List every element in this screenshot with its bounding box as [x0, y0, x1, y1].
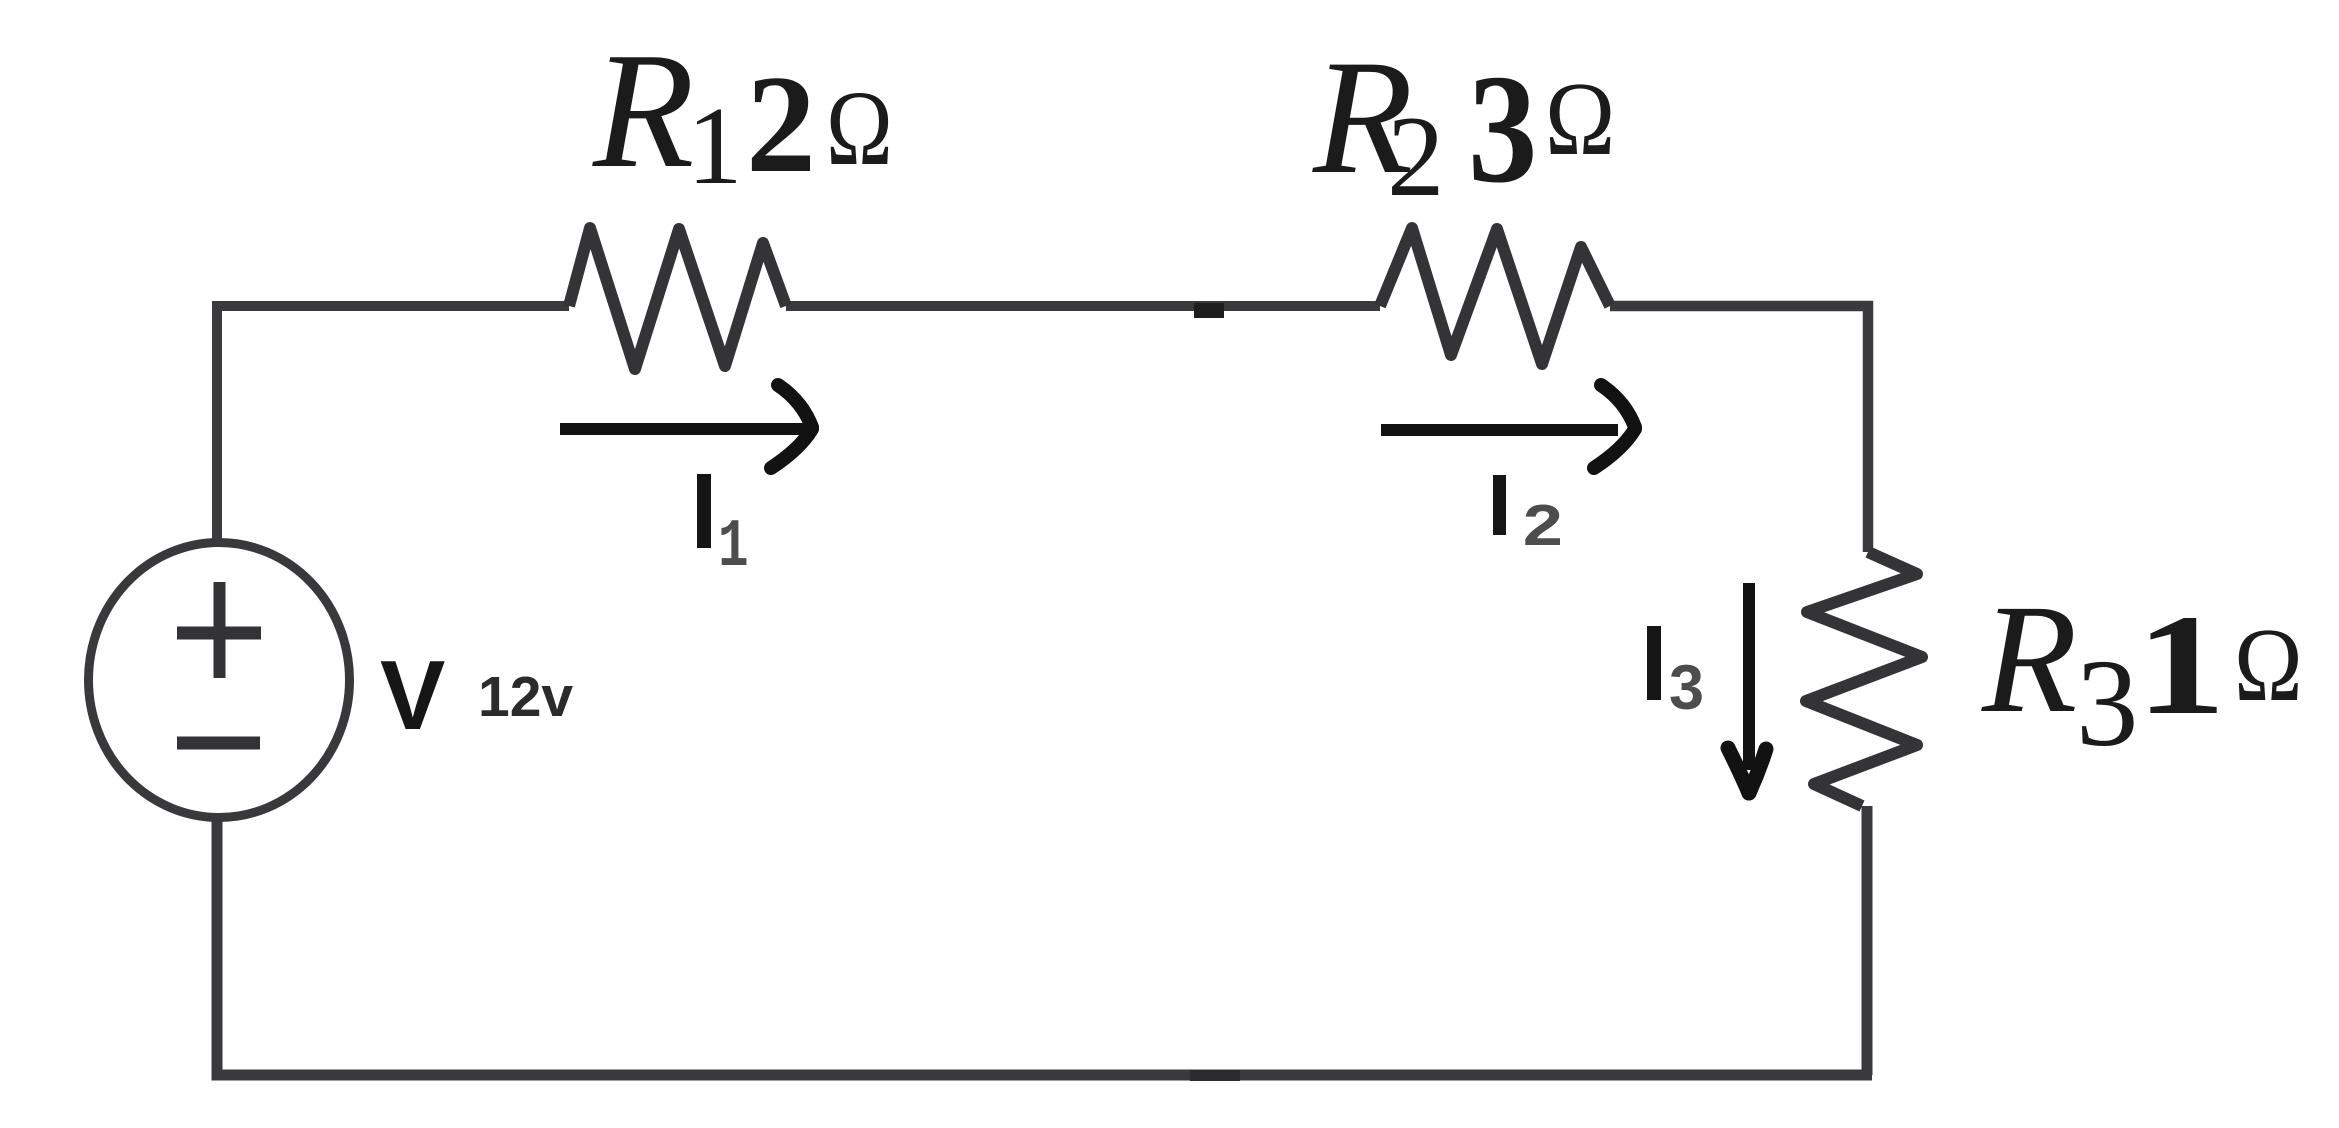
current label I3 — [1647, 626, 1661, 700]
svg-text:3: 3 — [1669, 653, 1704, 723]
resistor R1 zigzag — [569, 228, 786, 369]
node B junction blob on bottom wire — [1190, 1070, 1240, 1081]
svg-text:1: 1 — [718, 510, 749, 587]
wire: bottom wire — [217, 815, 1872, 1075]
resistor R2 zigzag — [1380, 228, 1610, 364]
voltage source plus sign — [177, 582, 261, 678]
svg-text:Ω: Ω — [826, 70, 893, 188]
svg-text:R: R — [592, 18, 694, 202]
resistor R3 zigzag (vertical) — [1806, 552, 1922, 806]
voltage source V1 circle — [89, 543, 350, 818]
svg-text:1: 1 — [2136, 586, 2226, 745]
wire: top middle segment between R1 and R2 — [786, 301, 1380, 311]
svg-text:12v: 12v — [478, 665, 573, 729]
svg-text:Ω: Ω — [1545, 60, 1615, 177]
current label I2 — [1493, 475, 1506, 535]
voltage source minus sign — [177, 737, 260, 750]
svg-text:3: 3 — [2076, 635, 2139, 773]
svg-text:1: 1 — [687, 85, 743, 208]
wire: left vertical + top-left segment to R1 — [217, 306, 569, 545]
current arrow I1 — [560, 385, 812, 468]
svg-text:Ω: Ω — [2234, 608, 2303, 724]
wire: top-right segment from R2 to corner, down to R3 — [1610, 306, 1868, 552]
svg-text:R: R — [1981, 572, 2077, 745]
resistor R2 label R2 3 ohm — [1312, 27, 1615, 220]
svg-text:V: V — [380, 640, 445, 750]
svg-text:2: 2 — [1387, 93, 1445, 220]
current arrow I3 (downward) — [1728, 583, 1766, 793]
resistor R3 label R3 1 ohm — [1981, 572, 2303, 773]
svg-text:2: 2 — [1521, 495, 1564, 563]
wire: right vertical below R3 to bottom corner — [1862, 806, 1873, 1075]
svg-text:2: 2 — [746, 47, 816, 202]
resistor R1 label R1 2 ohm — [592, 18, 893, 208]
current arrow I2 — [1381, 385, 1635, 468]
current label I1 — [697, 474, 711, 548]
svg-text:3: 3 — [1468, 42, 1537, 215]
node A junction blob on top wire — [1194, 303, 1224, 318]
